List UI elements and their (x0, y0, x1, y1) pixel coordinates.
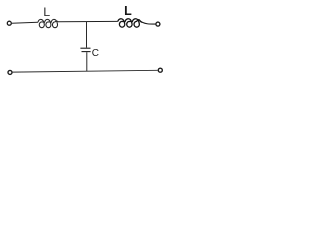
svg-text:L: L (124, 4, 132, 18)
svg-text:L: L (43, 5, 50, 19)
svg-text:C: C (92, 48, 99, 59)
